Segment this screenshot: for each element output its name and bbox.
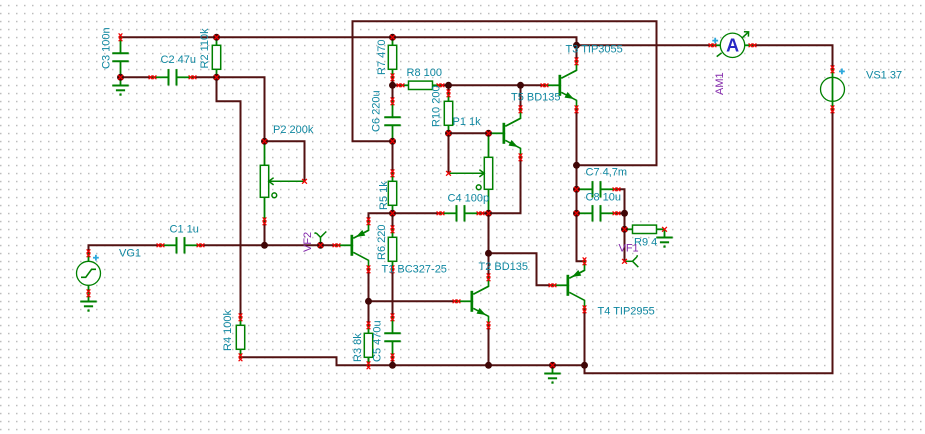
svg-text:C8 10u: C8 10u bbox=[586, 192, 621, 204]
wire T2 collector up bbox=[488, 253, 490, 277]
wire node to R10 bbox=[448, 85, 450, 93]
pin end R9 right bbox=[662, 227, 667, 232]
pin end T3 emitter bbox=[575, 105, 579, 113]
junction P2 top node bbox=[261, 138, 268, 145]
capacitor C8 bbox=[577, 205, 617, 221]
junction C6 bottom node bbox=[389, 138, 396, 145]
wire C5 to rail bbox=[392, 357, 394, 365]
wire node to R8 bbox=[393, 84, 401, 86]
pin end T4 collector bbox=[583, 305, 587, 313]
svg-text:VG1: VG1 bbox=[119, 248, 141, 260]
capacitor C2 bbox=[153, 69, 193, 85]
pin end T1 collector bbox=[367, 265, 371, 273]
wire C1 to T1 base bbox=[201, 244, 337, 246]
transistor T4 TIP2955 (PNP) bbox=[553, 261, 585, 309]
wire T1 emitter to node bbox=[369, 213, 393, 221]
svg-text:A: A bbox=[726, 36, 739, 56]
pin end C4 left bbox=[437, 211, 445, 215]
junction R9 left node bbox=[621, 226, 628, 233]
junction T2 emitter on rail bbox=[485, 362, 492, 369]
wire T3 collector up bbox=[576, 45, 578, 61]
transistor T1 BC327-25 (PNP) bbox=[337, 221, 369, 269]
capacitor C4 bbox=[441, 205, 481, 221]
pin end R6 top bbox=[391, 225, 395, 233]
pin end R4 top bbox=[239, 313, 243, 321]
svg-text:C3 100n: C3 100n bbox=[101, 27, 113, 69]
svg-text:T2 BD135: T2 BD135 bbox=[479, 261, 529, 273]
ground bottom rail bbox=[544, 365, 560, 383]
junction P1 top / T5 base node bbox=[485, 130, 492, 137]
ground right of R9 bbox=[656, 229, 672, 247]
ground under C3 bbox=[112, 77, 128, 95]
pin end C3 top bbox=[119, 33, 123, 41]
wire AM1 to VS1 bbox=[753, 45, 833, 69]
junction R7 top on rail bbox=[389, 34, 396, 41]
pin end T2 base bbox=[453, 299, 461, 303]
svg-text:R8 100: R8 100 bbox=[407, 67, 442, 79]
resistor R4 bbox=[236, 317, 244, 357]
junction T3 collector node bbox=[573, 42, 580, 49]
probe VF2 bbox=[314, 232, 326, 246]
pin end T2 emitter bbox=[487, 321, 491, 329]
pin end C4 right bbox=[477, 211, 485, 215]
pin end T5 collector bbox=[519, 105, 523, 113]
wire P2 wiper feed bbox=[265, 141, 305, 181]
pin end P2 bottom bbox=[263, 217, 267, 225]
svg-text:C5 470u: C5 470u bbox=[372, 320, 384, 362]
pin end C5 bottom bbox=[391, 353, 395, 361]
junction R7/R8/C6 node bbox=[389, 82, 396, 89]
junction T5 collector node bbox=[517, 82, 524, 89]
pin end C6 top bbox=[391, 97, 395, 105]
wire P2 bottom to input node bbox=[264, 221, 266, 245]
pin end T4 emitter bbox=[583, 257, 587, 265]
resistor R6 bbox=[388, 229, 396, 269]
pin end R10 top bbox=[447, 89, 451, 97]
junction C3 bottom node bbox=[117, 74, 124, 81]
junction T2 collector node bbox=[485, 250, 492, 257]
wire R7 to C6 bbox=[392, 77, 394, 101]
svg-text:R2 110k: R2 110k bbox=[199, 28, 211, 69]
junction C5 bottom on rail bbox=[389, 362, 396, 369]
junction R2 top on rail bbox=[213, 34, 220, 41]
wire R8 to T3 base bbox=[441, 84, 545, 86]
resistor R7 bbox=[388, 37, 396, 77]
capacitor C5 bbox=[384, 317, 400, 357]
pin end R8 left bbox=[397, 83, 405, 87]
pin end R5 top bbox=[391, 169, 395, 177]
pin end R7 bottom bbox=[391, 73, 395, 81]
wire R3 to rail stub bbox=[368, 357, 370, 365]
pin end C7 right bbox=[613, 187, 621, 191]
pin end VS1 top bbox=[831, 65, 835, 73]
pin end R8 right bbox=[437, 83, 445, 87]
wire T3 emitter column bbox=[577, 109, 585, 261]
wire node down bbox=[488, 213, 490, 253]
resistor R3 bbox=[364, 325, 372, 365]
wire C8 right bbox=[617, 212, 625, 214]
pin end VG1 top bbox=[87, 249, 91, 257]
svg-text:T1 BC327-25: T1 BC327-25 bbox=[382, 264, 447, 276]
pin end P1 wiper bbox=[446, 171, 451, 176]
resistor R5 bbox=[388, 173, 396, 213]
junction C8 right node bbox=[621, 210, 628, 217]
pin end R3 bottom bbox=[367, 361, 371, 369]
junction VF2 node bbox=[317, 242, 324, 249]
wire C3 to C2 bbox=[121, 76, 153, 78]
svg-text:P1 1k: P1 1k bbox=[453, 116, 482, 128]
probe VF1 bbox=[625, 255, 639, 267]
wire to T4 base bbox=[489, 253, 553, 285]
wire C6 node to R5 bbox=[392, 141, 394, 173]
wire R6 to C5 bbox=[392, 269, 394, 317]
junction C7 left node bbox=[573, 186, 580, 193]
junction ground on rail bbox=[549, 362, 556, 369]
svg-text:C7 4,7m: C7 4,7m bbox=[586, 167, 628, 179]
capacitor C1 bbox=[161, 237, 201, 253]
ground under VG1 bbox=[80, 293, 96, 311]
wire node to C4 bbox=[393, 212, 441, 214]
pin end VF1 pin bbox=[622, 259, 627, 264]
wire R2 node down to R4 bbox=[217, 77, 241, 317]
resistor R8 bbox=[401, 81, 441, 89]
potentiometer P2 bbox=[260, 141, 304, 221]
pin end C5 top bbox=[391, 313, 395, 321]
svg-text:VS1 37: VS1 37 bbox=[866, 70, 902, 82]
svg-text:R6 220: R6 220 bbox=[376, 225, 388, 260]
pin end T3 base bbox=[541, 83, 549, 87]
resistor R9 bbox=[625, 225, 665, 233]
pin end VG1 bottom bbox=[87, 289, 91, 297]
wire VG1 to C1 bbox=[89, 245, 161, 253]
junction R5 bottom node bbox=[389, 210, 396, 217]
pin end T2 collector bbox=[487, 273, 491, 281]
svg-text:R3 8k: R3 8k bbox=[352, 333, 364, 362]
svg-text:VF2: VF2 bbox=[302, 232, 314, 252]
svg-text:T3 TIP3055: T3 TIP3055 bbox=[566, 43, 623, 55]
capacitor C6 bbox=[384, 101, 400, 141]
junction R10 bottom node bbox=[445, 130, 452, 137]
pin end AM1 left bbox=[709, 43, 717, 47]
pin end T1 emitter bbox=[367, 217, 371, 225]
pin end AM1 right bbox=[749, 43, 757, 47]
svg-text:R5 1k: R5 1k bbox=[378, 181, 390, 210]
pin end C2 left bbox=[149, 75, 157, 79]
wire T4 collector down bbox=[584, 309, 586, 365]
pin end T5 emitter bbox=[519, 153, 523, 161]
resistor R2 bbox=[212, 37, 220, 77]
svg-text:T5 BD135: T5 BD135 bbox=[511, 92, 561, 104]
svg-text:P2 200k: P2 200k bbox=[273, 124, 314, 136]
wire T2 emitter down bbox=[488, 325, 490, 365]
svg-text:C1 1u: C1 1u bbox=[170, 224, 199, 236]
pin end T1 base bbox=[333, 243, 341, 247]
pin end R4 bottom bbox=[239, 353, 243, 361]
wire to AM1 bbox=[577, 44, 713, 46]
svg-text:R7 470: R7 470 bbox=[376, 40, 388, 75]
junction T4 collector on rail bbox=[581, 362, 588, 369]
capacitor C7 bbox=[577, 181, 617, 197]
svg-text:C4 100p: C4 100p bbox=[448, 193, 490, 205]
junction R2 bottom node bbox=[213, 74, 220, 81]
svg-text:R4 100k: R4 100k bbox=[222, 310, 234, 351]
wire C4 to node bbox=[481, 212, 489, 214]
transistor T3 TIP3055 (NPN) bbox=[545, 61, 577, 109]
transistor T5 BD135 (NPN) bbox=[489, 109, 521, 157]
wire C2 to P2 feed bbox=[193, 77, 265, 141]
svg-text:T4 TIP2955: T4 TIP2955 bbox=[598, 306, 655, 318]
wire bottom rail bbox=[241, 357, 585, 365]
wire to T2 base bbox=[369, 300, 457, 302]
wire VS1 to rail bbox=[585, 109, 833, 373]
pin end C2 right bbox=[189, 75, 197, 79]
wire bootstrap box bbox=[353, 21, 657, 165]
wire T5 emitter down bbox=[489, 157, 521, 213]
junction P1 bottom node bbox=[485, 210, 492, 217]
wire C7 right column bbox=[617, 189, 625, 261]
pin end R6 bottom bbox=[391, 265, 395, 273]
wire node to R6 bbox=[392, 213, 394, 229]
wire T5 collector up bbox=[520, 85, 522, 109]
resistor R10 bbox=[444, 93, 452, 133]
junction R10 top node bbox=[445, 82, 452, 89]
transistor T2 BD135 (NPN) bbox=[457, 277, 489, 325]
wire top rail bbox=[121, 37, 577, 45]
pin end T3 collector bbox=[575, 57, 579, 65]
svg-text:VF1: VF1 bbox=[619, 243, 639, 255]
junction T1 collector node bbox=[365, 298, 372, 305]
junction P2 bottom on input wire bbox=[261, 242, 268, 249]
wire wiper feed P1 bbox=[448, 133, 450, 173]
capacitor C3 bbox=[112, 37, 128, 77]
potentiometer P1 bbox=[449, 133, 493, 213]
pin end C8 right bbox=[613, 211, 621, 215]
wire T1 collector to R3 bbox=[368, 269, 370, 325]
pin end C1 right bbox=[197, 243, 205, 247]
junction box bottom node bbox=[573, 162, 580, 169]
svg-text:C2 47u: C2 47u bbox=[161, 54, 196, 66]
svg-text:C6 220u: C6 220u bbox=[371, 90, 383, 132]
svg-text:AM1: AM1 bbox=[714, 72, 726, 95]
pin end P2 wiper bbox=[302, 179, 307, 184]
junction C8 left node bbox=[573, 210, 580, 217]
ammeter AM1 bbox=[712, 32, 752, 58]
source VS1 bbox=[821, 69, 845, 110]
source VG1 bbox=[77, 253, 101, 293]
pin end VS1 bottom bbox=[831, 105, 835, 113]
pin end R3 top bbox=[367, 321, 371, 329]
pin end C1 left bbox=[157, 243, 165, 247]
pin end T4 base bbox=[549, 283, 557, 287]
wire R10 to P1/T5 bbox=[449, 132, 489, 134]
svg-text:R10 200: R10 200 bbox=[431, 85, 443, 127]
